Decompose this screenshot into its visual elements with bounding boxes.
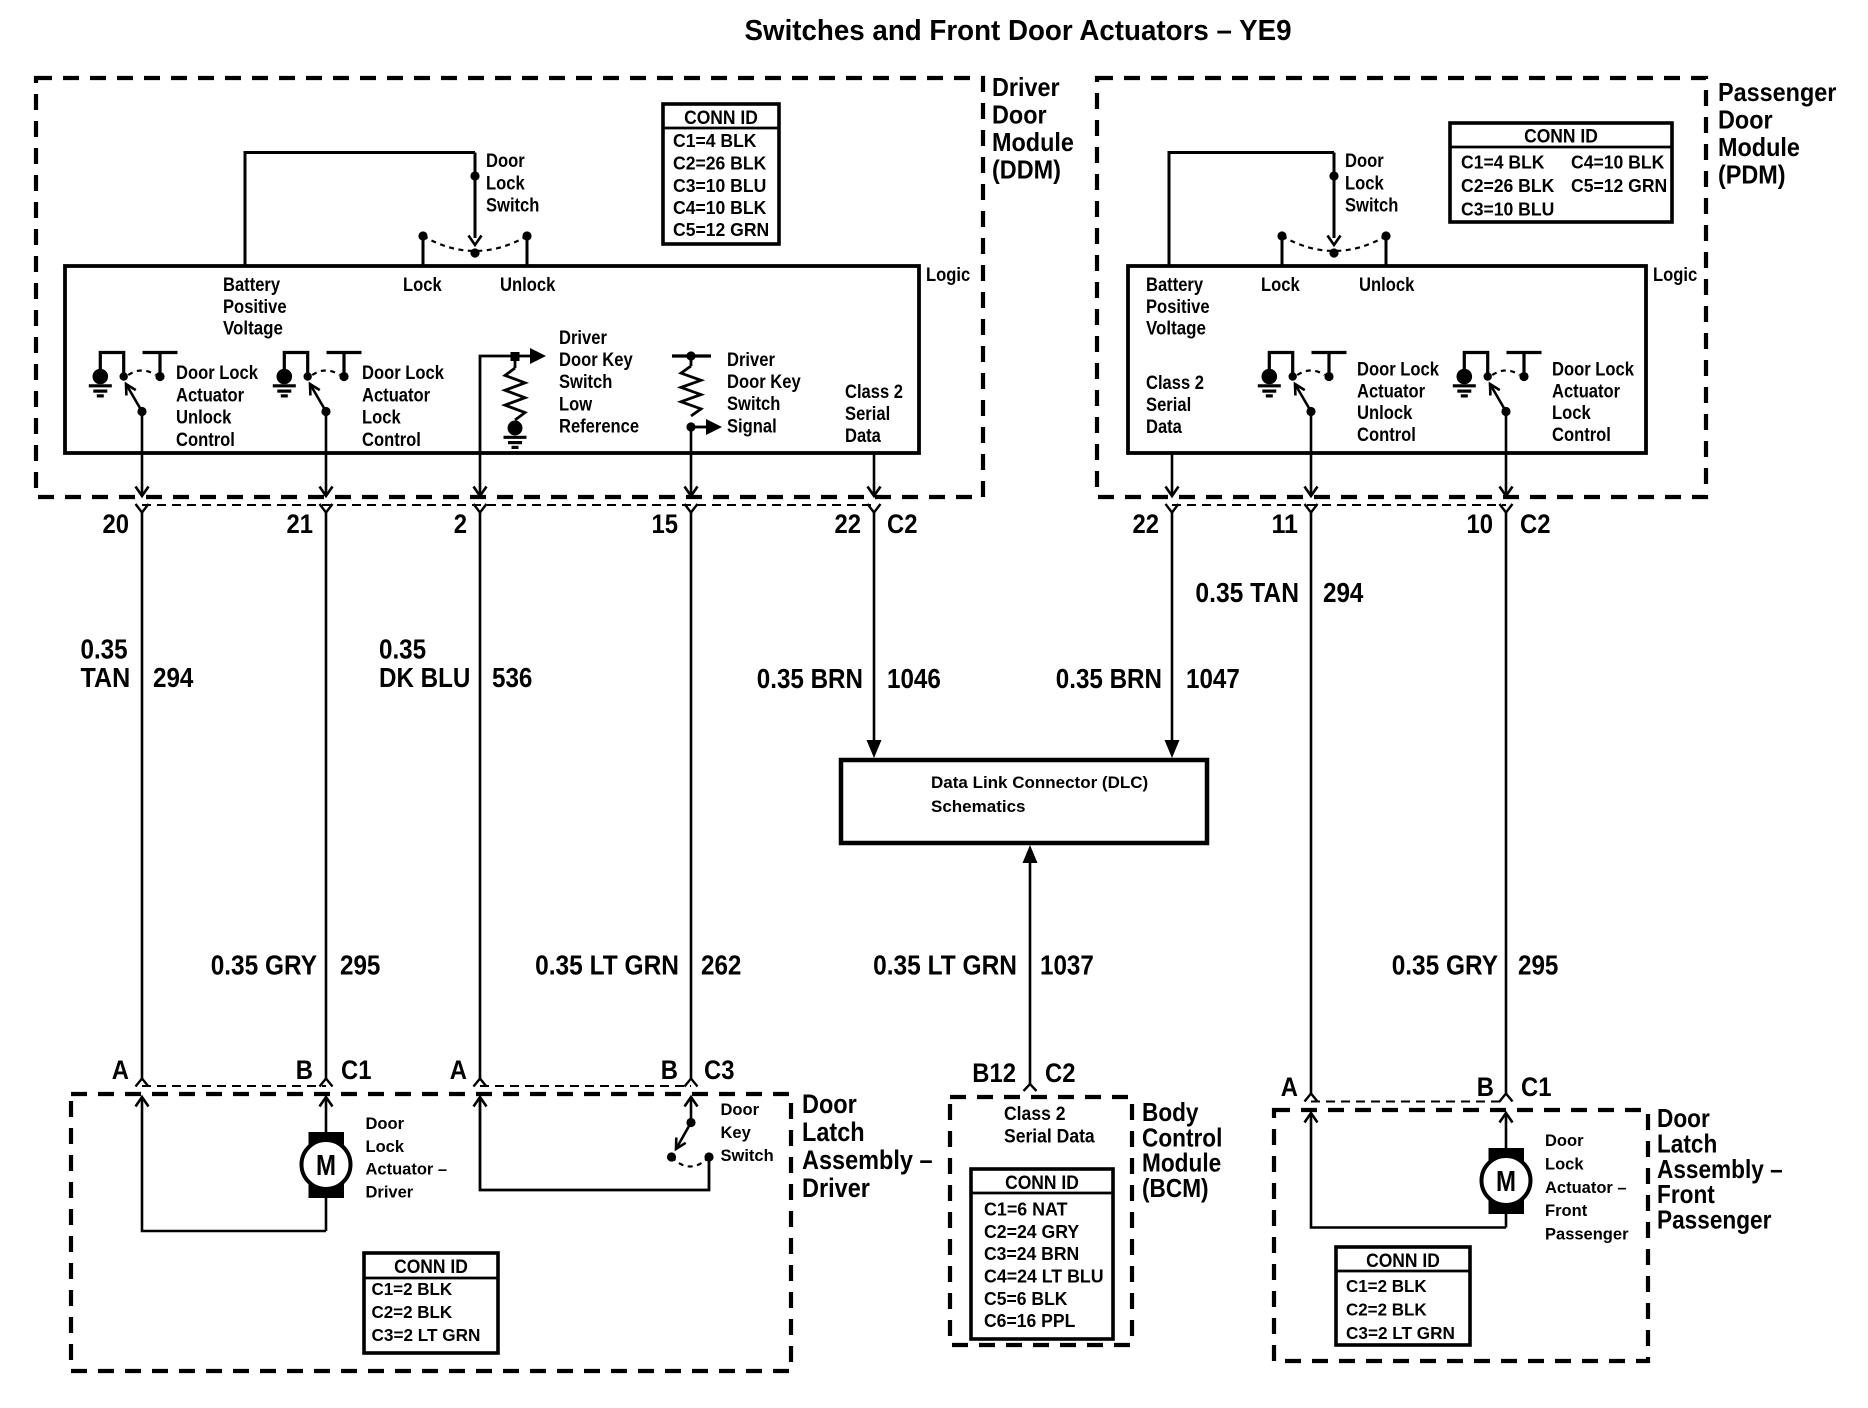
- PDM wire exit stub x=1311: [1305, 412, 1318, 497]
- PDM pin labels: [1133, 509, 1551, 539]
- svg-text:Lock: Lock: [486, 172, 525, 194]
- PDM pin fork x=1311: [1305, 504, 1318, 513]
- wire label 0.35 BRN 1046: [757, 663, 941, 694]
- svg-text:Lock: Lock: [366, 1138, 405, 1156]
- svg-text:A: A: [112, 1055, 129, 1085]
- wire label 0.35 GRY 295 (PDM): [1392, 950, 1559, 981]
- PDM pin connector dashed line: [1172, 504, 1506, 506]
- wire 1046 (DDM 22 to DLC): [867, 513, 882, 759]
- wire label 0.35 TAN 294: [81, 634, 195, 694]
- svg-text:295: 295: [1518, 950, 1558, 981]
- svg-text:Actuator: Actuator: [176, 384, 244, 406]
- svg-text:Voltage: Voltage: [1146, 318, 1206, 340]
- passenger latch bottom forks: [1305, 1094, 1318, 1102]
- svg-text:Serial: Serial: [1146, 394, 1191, 416]
- svg-text:0.35 BRN: 0.35 BRN: [1056, 663, 1162, 694]
- wire exit stub x=142: [136, 412, 149, 497]
- svg-text:C2=24 GRY: C2=24 GRY: [984, 1221, 1080, 1242]
- svg-text:Driver: Driver: [727, 349, 775, 371]
- motor M driver: [302, 1132, 351, 1198]
- svg-text:Door: Door: [802, 1089, 857, 1119]
- svg-text:C2=2 BLK: C2=2 BLK: [372, 1302, 453, 1322]
- svg-text:Reference: Reference: [559, 415, 639, 437]
- wire label 0.35 LT GRN 262: [535, 950, 741, 981]
- svg-text:Serial Data: Serial Data: [1004, 1126, 1095, 1148]
- PDM switch: door lock actuator lock control: [1453, 353, 1634, 446]
- svg-text:Door Lock: Door Lock: [1357, 359, 1439, 381]
- svg-text:Passenger: Passenger: [1718, 77, 1836, 107]
- svg-text:C2: C2: [1520, 509, 1551, 539]
- svg-text:C1: C1: [341, 1055, 372, 1085]
- svg-text:262: 262: [701, 950, 741, 981]
- PDM pin fork x=1172: [1166, 504, 1179, 513]
- driver latch pin labels: [112, 1055, 735, 1085]
- svg-text:Door: Door: [1545, 1132, 1584, 1150]
- svg-text:Unlock: Unlock: [1357, 402, 1412, 424]
- wire exit stub x=326: [320, 412, 333, 497]
- DDM pin fork x=326: [320, 504, 333, 513]
- motor M driver label: [366, 1115, 448, 1201]
- wire label 0.35 DK BLU 536: [379, 634, 532, 694]
- svg-text:M: M: [1496, 1166, 1516, 1198]
- svg-text:C2=26 BLK: C2=26 BLK: [1461, 175, 1555, 196]
- PDM battery feed wire: [1169, 153, 1334, 267]
- PDM logic box: [1128, 266, 1646, 453]
- svg-text:10: 10: [1467, 509, 1494, 539]
- svg-text:(BCM): (BCM): [1142, 1173, 1209, 1203]
- wire 295b (PDM 10 to passenger latch B): [1505, 513, 1508, 1094]
- svg-text:22: 22: [1133, 509, 1160, 539]
- svg-text:2: 2: [454, 509, 467, 539]
- svg-text:Key: Key: [721, 1124, 752, 1142]
- svg-text:Door Lock: Door Lock: [176, 362, 258, 384]
- DDM pin fork x=142: [136, 504, 149, 513]
- driver door key switch wires: [480, 1097, 709, 1190]
- DDM low reference resistor: [480, 348, 546, 453]
- driver door key switch label: [721, 1101, 774, 1165]
- motor M passenger label: [1545, 1132, 1629, 1244]
- svg-text:(DDM): (DDM): [992, 155, 1061, 185]
- motor M passenger: wires: [1311, 1113, 1506, 1228]
- svg-text:Door: Door: [1718, 105, 1773, 135]
- motor M passenger: [1482, 1148, 1531, 1214]
- DLC label: [931, 773, 1148, 816]
- title: [745, 15, 1292, 47]
- DDM pin fork x=480: [474, 504, 487, 513]
- BCM class 2 serial data label: [1004, 1103, 1095, 1148]
- svg-text:C6=16 PPL: C6=16 PPL: [984, 1310, 1075, 1331]
- svg-text:Passenger: Passenger: [1657, 1205, 1771, 1235]
- svg-text:Control: Control: [176, 429, 235, 451]
- svg-text:20: 20: [103, 509, 130, 539]
- svg-text:C1=4 BLK: C1=4 BLK: [1461, 152, 1545, 173]
- DLC box: [841, 760, 1207, 843]
- svg-text:C3=2 LT GRN: C3=2 LT GRN: [1346, 1323, 1455, 1343]
- BCM module box: [950, 1097, 1132, 1345]
- svg-text:Front: Front: [1545, 1202, 1588, 1220]
- svg-text:Actuator: Actuator: [1552, 380, 1620, 402]
- svg-text:B12: B12: [972, 1058, 1016, 1088]
- svg-text:Lock: Lock: [362, 407, 401, 429]
- svg-text:CONN ID: CONN ID: [394, 1257, 468, 1278]
- BCM pin labels B12 C2: [972, 1058, 1075, 1088]
- svg-text:C2: C2: [887, 509, 918, 539]
- svg-text:Door Lock: Door Lock: [362, 362, 444, 384]
- svg-text:Data: Data: [845, 425, 881, 447]
- DDM Lock label: [403, 274, 442, 296]
- wire 294 (pin20 to latch A): [141, 513, 144, 1079]
- svg-text:Class 2: Class 2: [845, 381, 903, 403]
- svg-text:1047: 1047: [1186, 663, 1240, 694]
- svg-text:Switch: Switch: [721, 1147, 774, 1165]
- driver latch bottom forks: [136, 1079, 149, 1087]
- module DDM box: [36, 78, 983, 497]
- wire label 0.35 LT GRN 1037: [873, 950, 1094, 981]
- svg-text:22: 22: [835, 509, 862, 539]
- passenger latch assembly label: [1657, 1103, 1783, 1235]
- passenger latch entry arrows: [1305, 1113, 1318, 1123]
- svg-text:Data: Data: [1146, 416, 1182, 438]
- PDM switch: door lock actuator unlock control: [1258, 353, 1439, 446]
- svg-text:Control: Control: [1357, 424, 1416, 446]
- svg-text:Logic: Logic: [926, 264, 970, 286]
- svg-text:C2=26 BLK: C2=26 BLK: [673, 153, 767, 174]
- DDM battery label: [223, 274, 287, 340]
- svg-text:C1=4 BLK: C1=4 BLK: [673, 130, 757, 151]
- svg-text:Lock: Lock: [1261, 274, 1300, 296]
- svg-text:Voltage: Voltage: [223, 318, 283, 340]
- svg-text:C3=24 BRN: C3=24 BRN: [984, 1243, 1079, 1264]
- svg-text:(PDM): (PDM): [1718, 160, 1786, 190]
- svg-text:Low: Low: [559, 393, 593, 415]
- svg-text:Actuator –: Actuator –: [1545, 1179, 1627, 1197]
- wire label 0.35 BRN 1047: [1056, 663, 1240, 694]
- svg-text:Serial: Serial: [845, 403, 890, 425]
- svg-text:Actuator –: Actuator –: [366, 1161, 448, 1179]
- module PDM box: [1097, 78, 1706, 497]
- svg-text:Module: Module: [992, 127, 1074, 157]
- PDM logic label: [1653, 264, 1697, 286]
- wire label 0.35 GRY 295: [211, 950, 381, 981]
- DDM pin connector dashed line: [142, 504, 874, 506]
- wire exit stub x=691: [685, 453, 698, 496]
- svg-text:Logic: Logic: [1653, 264, 1697, 286]
- svg-text:Lock: Lock: [1552, 402, 1591, 424]
- svg-text:CONN ID: CONN ID: [1524, 127, 1598, 148]
- DDM pin fork x=691: [685, 504, 698, 513]
- svg-text:0.35: 0.35: [379, 634, 426, 665]
- svg-text:CONN ID: CONN ID: [1005, 1173, 1079, 1194]
- DDM door lock switch pole wire: [469, 153, 482, 246]
- svg-text:Driver: Driver: [559, 327, 607, 349]
- svg-text:Data Link Connector (DLC): Data Link Connector (DLC): [931, 773, 1148, 792]
- DDM connector table CONN ID: [663, 104, 779, 244]
- svg-text:Switch: Switch: [486, 195, 539, 217]
- svg-text:A: A: [1281, 1072, 1298, 1102]
- svg-text:M: M: [316, 1150, 336, 1182]
- svg-text:C3=10 BLU: C3=10 BLU: [673, 175, 766, 196]
- svg-text:Door: Door: [1345, 150, 1384, 172]
- DDM pin fork x=874: [868, 504, 881, 513]
- driver latch entry arrows: [136, 1097, 149, 1107]
- DDM door lock switch label: [486, 150, 539, 217]
- PDM connector table CONN ID: [1450, 123, 1672, 222]
- svg-text:Unlock: Unlock: [1359, 274, 1414, 296]
- svg-text:536: 536: [492, 662, 532, 693]
- svg-text:Class 2: Class 2: [1146, 372, 1204, 394]
- svg-text:Driver: Driver: [992, 72, 1060, 102]
- wire 1047 (PDM 22 to DLC): [1165, 513, 1180, 759]
- svg-text:0.35 GRY: 0.35 GRY: [211, 950, 317, 981]
- svg-text:11: 11: [1272, 509, 1299, 539]
- driver latch assembly label: [802, 1089, 933, 1203]
- svg-text:C2: C2: [1045, 1058, 1076, 1088]
- svg-text:Module: Module: [1718, 132, 1800, 162]
- PDM Lock label: [1261, 274, 1300, 296]
- PDM door lock switch pole wire: [1328, 153, 1341, 246]
- svg-text:15: 15: [652, 509, 679, 539]
- PDM wire exit stub x=1506: [1500, 412, 1513, 497]
- DDM Unlock label: [500, 274, 555, 296]
- svg-text:1037: 1037: [1040, 950, 1094, 981]
- passenger latch assembly box: [1274, 1110, 1648, 1361]
- svg-text:B: B: [296, 1055, 313, 1085]
- svg-text:Door Key: Door Key: [727, 371, 801, 393]
- PDM pin fork x=1506: [1500, 504, 1513, 513]
- wire 262 (pin15 to latch B): [690, 513, 693, 1079]
- wire 294b (PDM 11 to passenger latch A): [1310, 513, 1313, 1094]
- svg-text:B: B: [661, 1055, 678, 1085]
- wire exit stub x=874: [868, 453, 881, 496]
- svg-text:Lock: Lock: [1345, 172, 1384, 194]
- svg-text:0.35: 0.35: [81, 634, 128, 665]
- svg-text:Unlock: Unlock: [500, 274, 555, 296]
- passenger latch pin labels: [1281, 1072, 1552, 1102]
- svg-text:295: 295: [340, 950, 380, 981]
- passenger latch connector table: [1336, 1247, 1470, 1345]
- svg-text:Door: Door: [992, 100, 1047, 130]
- svg-text:Unlock: Unlock: [176, 407, 231, 429]
- svg-text:Positive: Positive: [1146, 296, 1210, 318]
- svg-text:Door Key: Door Key: [559, 349, 633, 371]
- DDM switch: door lock actuator lock control: [273, 353, 444, 451]
- svg-text:294: 294: [1323, 577, 1364, 608]
- driver latch connector table: [364, 1253, 498, 1353]
- svg-text:Actuator: Actuator: [362, 384, 430, 406]
- svg-text:Schematics: Schematics: [931, 797, 1026, 816]
- module DDM label: [992, 72, 1074, 185]
- BCM connector table CONN ID: [971, 1169, 1113, 1339]
- svg-text:Switch: Switch: [559, 371, 612, 393]
- svg-text:A: A: [450, 1055, 467, 1085]
- svg-text:0.35 GRY: 0.35 GRY: [1392, 950, 1498, 981]
- svg-text:1046: 1046: [887, 663, 941, 694]
- svg-text:Driver: Driver: [366, 1183, 414, 1201]
- wire 536 (pin2 to latch A): [479, 513, 482, 1079]
- DDM class 2 serial data label: [845, 381, 903, 447]
- svg-text:Passenger: Passenger: [1545, 1226, 1629, 1244]
- svg-text:Latch: Latch: [802, 1117, 865, 1147]
- DDM logic box: [65, 266, 919, 453]
- svg-text:CONN ID: CONN ID: [684, 108, 758, 129]
- svg-text:Control: Control: [362, 429, 421, 451]
- passenger latch pin dashed line: [1311, 1101, 1506, 1103]
- PDM door lock switch label: [1345, 150, 1398, 217]
- svg-text:Switch: Switch: [1345, 195, 1398, 217]
- PDM battery label: [1146, 274, 1210, 340]
- motor M driver: wires: [142, 1097, 326, 1231]
- DDM signal label: [727, 349, 801, 437]
- PDM Unlock label: [1359, 274, 1414, 296]
- module PDM label: [1718, 77, 1836, 190]
- PDM wire exit stub x=1172: [1166, 453, 1179, 496]
- svg-text:294: 294: [153, 662, 194, 693]
- svg-text:0.35 LT GRN: 0.35 LT GRN: [873, 950, 1017, 981]
- svg-text:C1=6 NAT: C1=6 NAT: [984, 1199, 1068, 1220]
- svg-text:C1: C1: [1521, 1072, 1552, 1102]
- svg-text:Switch: Switch: [727, 393, 780, 415]
- svg-text:Control: Control: [1552, 424, 1611, 446]
- svg-text:Battery: Battery: [223, 274, 280, 296]
- svg-text:Signal: Signal: [727, 415, 777, 437]
- svg-text:Door: Door: [721, 1101, 760, 1119]
- svg-text:B: B: [1477, 1072, 1494, 1102]
- svg-text:0.35 TAN: 0.35 TAN: [1195, 577, 1299, 608]
- svg-text:C4=10 BLK: C4=10 BLK: [673, 197, 767, 218]
- svg-text:CONN ID: CONN ID: [1366, 1251, 1440, 1272]
- svg-text:Lock: Lock: [403, 274, 442, 296]
- svg-text:C4=10 BLK: C4=10 BLK: [1571, 152, 1665, 173]
- svg-text:C3: C3: [704, 1055, 735, 1085]
- svg-text:0.35 LT GRN: 0.35 LT GRN: [535, 950, 679, 981]
- svg-text:Battery: Battery: [1146, 274, 1203, 296]
- DDM switch: door lock actuator unlock control: [89, 353, 258, 451]
- svg-text:21: 21: [287, 509, 314, 539]
- svg-text:Positive: Positive: [223, 296, 287, 318]
- svg-text:DK BLU: DK BLU: [379, 662, 470, 693]
- svg-text:Switches and Front Door Actuat: Switches and Front Door Actuators – YE9: [745, 15, 1292, 47]
- svg-text:Driver: Driver: [802, 1173, 870, 1203]
- driver latch assembly box: [71, 1094, 791, 1371]
- PDM class 2 serial data label: [1146, 372, 1204, 438]
- wire label 0.35 TAN 294 (PDM): [1195, 577, 1364, 608]
- driver door key switch: [667, 1118, 714, 1167]
- BCM module label: [1142, 1097, 1222, 1203]
- svg-text:C5=12 GRN: C5=12 GRN: [1571, 175, 1667, 196]
- DDM battery feed wire: [245, 153, 475, 267]
- driver latch pin dashed lines: [142, 1085, 691, 1087]
- wire exit stub x=480: [474, 453, 487, 496]
- DDM low reference label: [559, 327, 639, 437]
- svg-text:C1=2 BLK: C1=2 BLK: [372, 1279, 453, 1299]
- svg-text:TAN: TAN: [81, 662, 131, 693]
- svg-text:C5=6 BLK: C5=6 BLK: [984, 1288, 1068, 1309]
- svg-text:Lock: Lock: [1545, 1155, 1584, 1173]
- DDM logic label: [926, 264, 970, 286]
- svg-text:0.35 BRN: 0.35 BRN: [757, 663, 863, 694]
- svg-text:C1=2 BLK: C1=2 BLK: [1346, 1276, 1427, 1296]
- PDM door lock switch arc and contacts: [1277, 231, 1390, 266]
- DDM signal resistor: [672, 351, 722, 453]
- svg-text:C5=12 GRN: C5=12 GRN: [673, 219, 769, 240]
- svg-text:C4=24 LT BLU: C4=24 LT BLU: [984, 1266, 1104, 1287]
- svg-text:C3=2 LT GRN: C3=2 LT GRN: [372, 1325, 481, 1345]
- svg-text:Door: Door: [486, 150, 525, 172]
- svg-text:Door Lock: Door Lock: [1552, 359, 1634, 381]
- svg-text:Assembly –: Assembly –: [802, 1145, 933, 1175]
- svg-text:Door: Door: [366, 1115, 405, 1133]
- svg-text:C2=2 BLK: C2=2 BLK: [1346, 1300, 1427, 1320]
- svg-text:Actuator: Actuator: [1357, 380, 1425, 402]
- wire 295 (pin21 to latch B): [325, 513, 328, 1079]
- svg-text:C3=10 BLU: C3=10 BLU: [1461, 199, 1554, 220]
- wire 1037 (BCM to DLC): [1023, 845, 1038, 1091]
- svg-text:Class 2: Class 2: [1004, 1103, 1066, 1125]
- DDM door lock switch arc and contacts: [418, 231, 531, 266]
- DDM pin labels: [103, 509, 918, 539]
